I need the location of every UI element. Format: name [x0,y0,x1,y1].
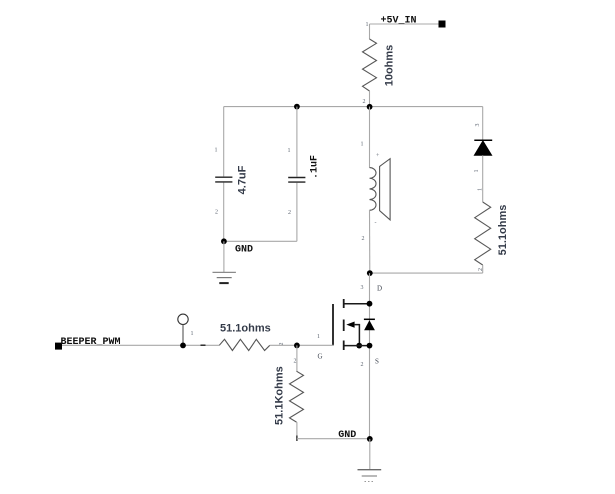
wire cap bottom bus [224,240,297,242]
node bus/.1uF junction [294,104,300,110]
power port +5V_IN [381,16,446,28]
svg-text:51.1ohms: 51.1ohms [497,205,509,256]
node drain junction [367,270,373,276]
svg-text:1: 1 [288,148,291,154]
resistor 51.1ohms (right) [475,188,509,271]
node cap-bottom/gnd junction [221,238,227,244]
wire right branch top [482,107,484,141]
svg-text:D: D [377,285,382,293]
source stub [344,345,370,347]
svg-text:2: 2 [363,99,366,105]
wire diode to resistor [482,155,484,202]
node bus/main junction [367,104,373,110]
ground (upper) [213,241,236,283]
wire 4.7uF branch [223,107,225,177]
svg-text:4.7uF: 4.7uF [237,165,249,194]
ground (lower) [358,439,382,482]
svg-text:2: 2 [362,236,365,242]
drain stub [344,303,370,305]
svg-text:51.1ohms: 51.1ohms [220,323,271,335]
wire right branch bottom [482,265,484,273]
svg-text:3: 3 [361,285,364,291]
wire .1uF branch [296,107,298,177]
input port BEEPER_PWM [55,337,121,350]
svg-text:1: 1 [215,148,218,154]
svg-text:.1uF: .1uF [310,155,321,179]
svg-text:1: 1 [478,188,484,191]
wire main vertical to buzzer [369,107,371,168]
resistor 51.1ohms (horizontal) [201,323,286,351]
node gate junction [294,343,300,349]
svg-text:+5V_IN: +5V_IN [381,16,417,27]
buzzer LS1 [361,142,391,243]
wire resistor to gate [270,344,334,346]
channel ticks [343,320,345,332]
svg-text:10ohms: 10ohms [384,45,396,87]
svg-text:S: S [375,358,379,366]
resistor 10ohms [363,22,396,105]
wire buzzer to drain node [369,210,371,273]
svg-text:GND: GND [338,430,356,441]
wire source gnd bus [297,438,370,440]
svg-text:2: 2 [294,359,297,365]
svg-text:1: 1 [191,331,194,337]
body arrow [346,322,354,328]
svg-text:1: 1 [317,334,320,340]
svg-text:G: G [318,353,323,361]
capacitor 4.7uF [215,148,249,216]
wire gate net left [62,344,219,346]
gate bar [332,304,334,345]
svg-text:2: 2 [215,210,218,216]
transistor Q1 (N-MOSFET) [317,299,379,368]
body diode [364,318,375,320]
wire main vertical top (rail to resistor) [369,24,371,39]
resistor 51.1Kohms [274,345,304,441]
svg-text:GND: GND [235,245,253,256]
wire +5V rail [370,23,441,25]
test point TP1 [178,314,194,345]
svg-text:1: 1 [361,142,364,148]
capacitor .1uF [288,148,321,216]
svg-text:51.1Kohms: 51.1Kohms [274,366,286,425]
svg-text:3: 3 [475,124,481,127]
wire drain node to mosfet [369,273,371,439]
svg-text:1: 1 [366,22,369,28]
svg-text:-: - [375,221,377,227]
wire top bus [224,106,483,108]
node gnd junction [367,436,373,442]
svg-text:2: 2 [361,362,364,368]
svg-text:1: 1 [474,170,480,173]
diode D1 [474,124,492,173]
wire resistor 10ohms to bus [369,91,371,107]
svg-text:2: 2 [288,210,291,216]
svg-text:BEEPER_PWM: BEEPER_PWM [61,337,121,348]
node testpoint junction [180,343,186,349]
